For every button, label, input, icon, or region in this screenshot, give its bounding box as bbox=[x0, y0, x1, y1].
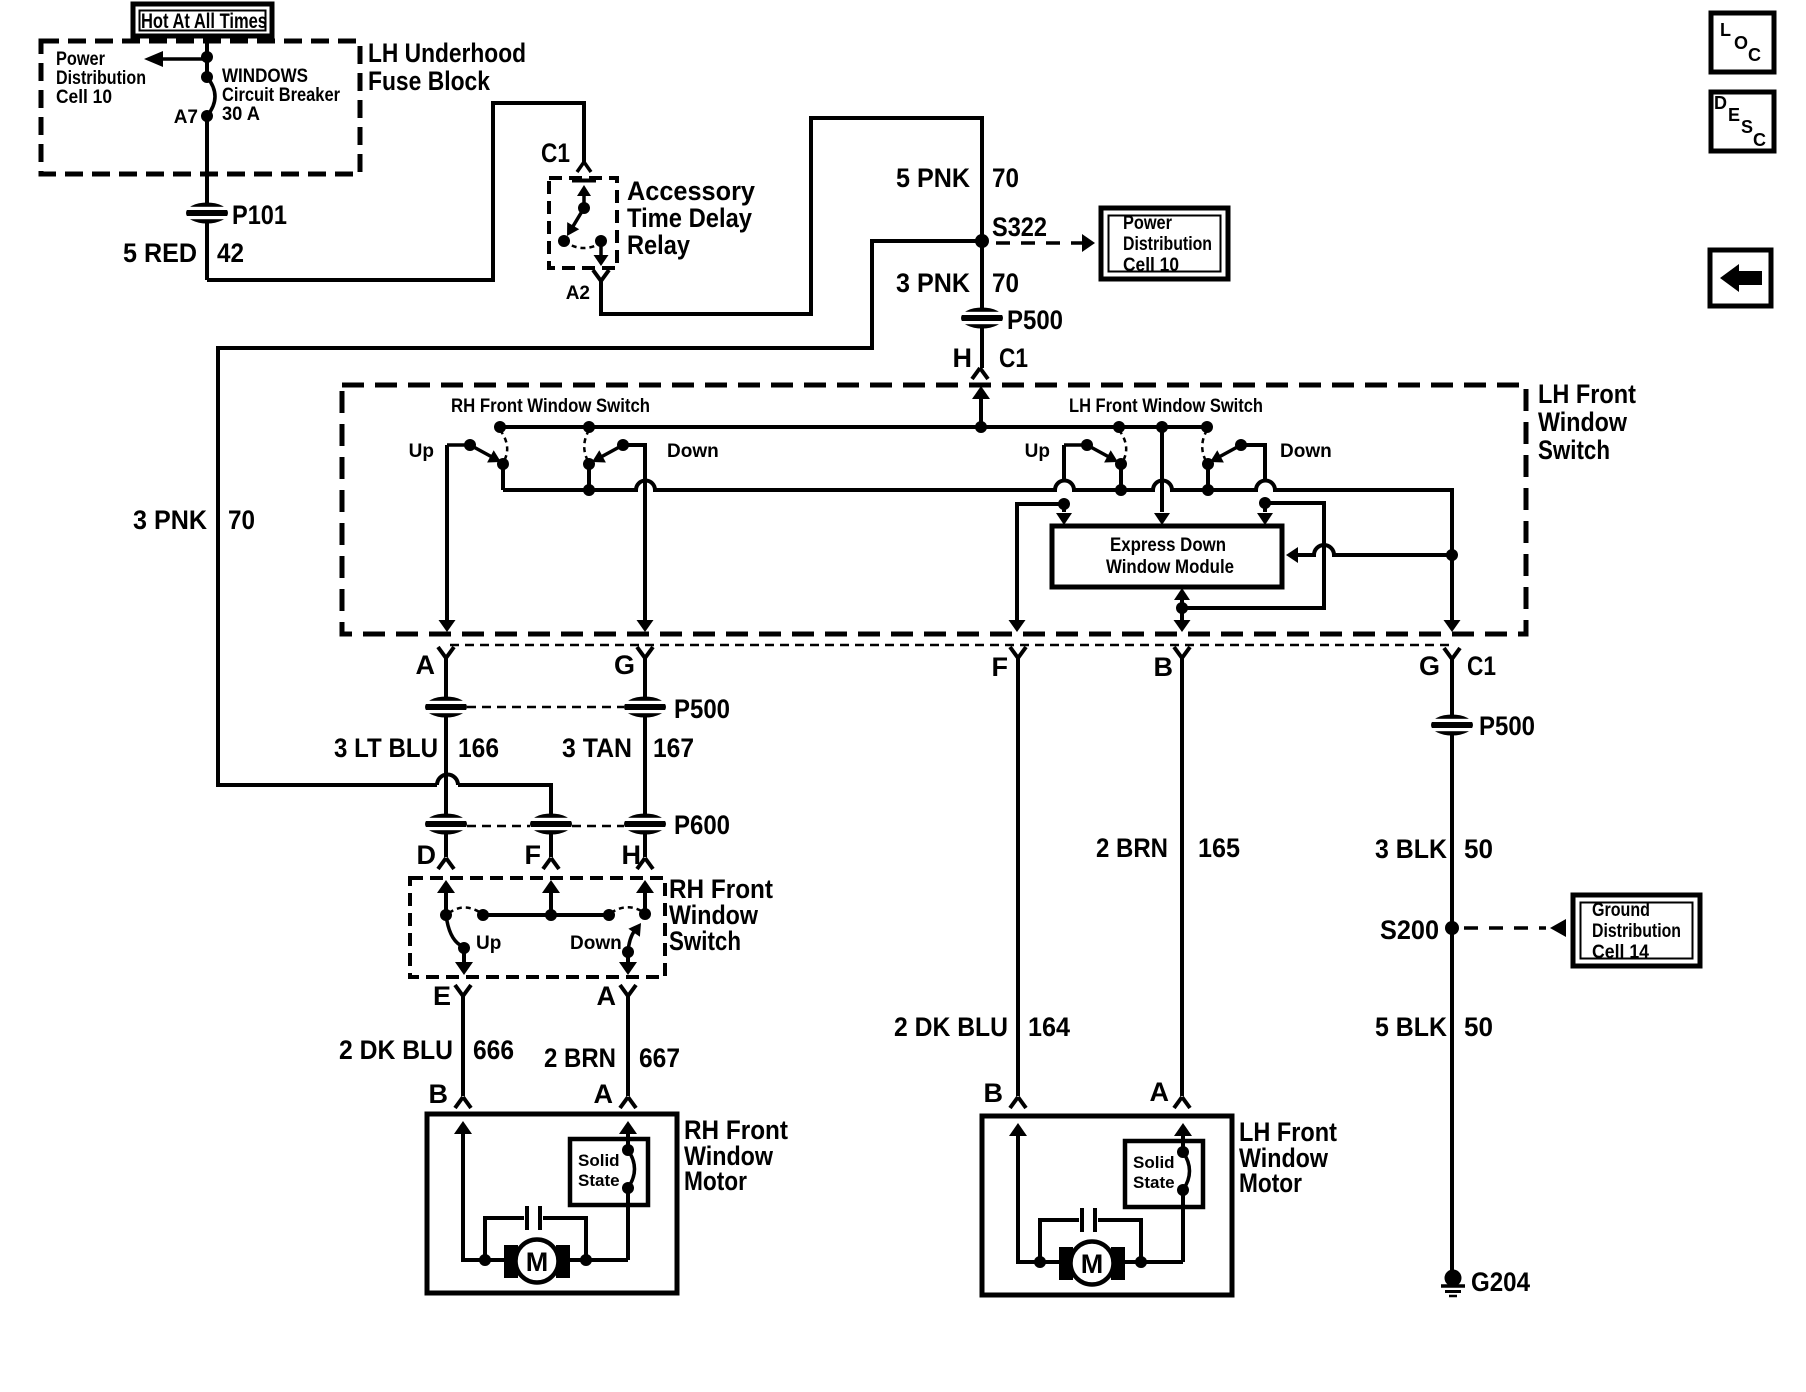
svg-text:P500: P500 bbox=[1007, 305, 1063, 335]
svg-text:50: 50 bbox=[1464, 1012, 1493, 1042]
svg-text:Down: Down bbox=[667, 441, 719, 462]
svg-text:Solid: Solid bbox=[1133, 1153, 1175, 1172]
node bus right junction bbox=[1446, 549, 1458, 561]
hot at all times label box bbox=[133, 4, 272, 36]
svg-text:Solid: Solid bbox=[578, 1151, 620, 1170]
svg-text:H: H bbox=[953, 343, 973, 373]
svg-text:D: D bbox=[1714, 93, 1727, 113]
LH front window switch assembly dashed box bbox=[342, 385, 1526, 634]
wire RH up to terminal A bbox=[445, 445, 449, 624]
LH up contact bbox=[1113, 421, 1125, 433]
wire terminal F down to LH motor bbox=[1016, 658, 1020, 1096]
svg-text:A2: A2 bbox=[566, 283, 590, 304]
RH motor solid state module bbox=[570, 1139, 648, 1205]
LH mid contact bbox=[1156, 421, 1168, 433]
svg-text:70: 70 bbox=[228, 505, 255, 535]
forks E A bbox=[455, 985, 471, 996]
LH down arm wire bbox=[1241, 445, 1265, 479]
svg-text:State: State bbox=[1133, 1173, 1175, 1192]
svg-text:166: 166 bbox=[458, 733, 499, 763]
connector P101 bbox=[184, 203, 230, 224]
svg-text:Window Module: Window Module bbox=[1106, 557, 1234, 578]
relay linkage dashed bbox=[564, 241, 601, 248]
wire breaker to P101 bbox=[205, 116, 209, 280]
svg-text:F: F bbox=[992, 652, 1009, 682]
wire to terminal E bbox=[462, 948, 466, 964]
wire terminal A down bbox=[444, 658, 448, 857]
wire 5 RED run to relay C1 bbox=[207, 103, 584, 280]
svg-text:P600: P600 bbox=[674, 810, 730, 840]
svg-text:C: C bbox=[1753, 130, 1766, 150]
LH motor B lead bbox=[1018, 1133, 1065, 1262]
relay fixed contact bar bbox=[572, 179, 596, 183]
svg-text:G: G bbox=[1419, 651, 1440, 681]
svg-text:Time Delay: Time Delay bbox=[627, 203, 752, 233]
RH up fixed contact to bus bbox=[497, 458, 509, 470]
relay armature bbox=[577, 185, 591, 196]
svg-text:5 RED: 5 RED bbox=[123, 238, 197, 268]
connector row dashed line bbox=[450, 644, 1450, 647]
svg-text:Distribution: Distribution bbox=[56, 68, 146, 89]
svg-text:165: 165 bbox=[1198, 833, 1240, 863]
connector fork H C1 bbox=[972, 368, 988, 379]
RH down arm wire to G bbox=[623, 445, 645, 624]
express down window module box bbox=[1052, 526, 1282, 587]
svg-text:30 A: 30 A bbox=[222, 104, 260, 125]
RH motor B lead bbox=[463, 1131, 510, 1260]
svg-text:A: A bbox=[416, 650, 436, 680]
wire branch around module bbox=[1182, 503, 1324, 608]
RH motor capacitor bbox=[479, 1254, 491, 1266]
wire LH up leg below bus bbox=[1062, 501, 1066, 512]
LH motor armature bbox=[1059, 1247, 1073, 1280]
power distribution cell 10 box bbox=[1101, 208, 1228, 279]
LH up linkage dashed bbox=[1119, 430, 1126, 461]
arrow feed into switch assembly bbox=[972, 386, 990, 399]
svg-text:3 PNK: 3 PNK bbox=[133, 505, 207, 535]
LH mid wire to module bbox=[1160, 427, 1164, 512]
svg-text:M: M bbox=[526, 1247, 549, 1277]
svg-text:3 TAN: 3 TAN bbox=[562, 733, 632, 763]
svg-text:Down: Down bbox=[1280, 441, 1332, 462]
LH down contact bbox=[1201, 421, 1213, 433]
svg-text:S: S bbox=[1741, 117, 1753, 137]
LH down pivot bbox=[1202, 458, 1214, 470]
RH down linkage dashed bbox=[584, 430, 589, 461]
svg-text:Express Down: Express Down bbox=[1110, 535, 1226, 556]
svg-text:F: F bbox=[525, 840, 542, 870]
svg-text:E: E bbox=[1728, 105, 1740, 125]
svg-text:LH Front Window Switch: LH Front Window Switch bbox=[1069, 396, 1263, 417]
RH switch bus bbox=[483, 913, 609, 917]
svg-text:2 BRN: 2 BRN bbox=[544, 1043, 616, 1073]
svg-text:Window: Window bbox=[1538, 407, 1628, 437]
svg-text:50: 50 bbox=[1464, 834, 1493, 864]
LH motor capacitor bbox=[1034, 1256, 1046, 1268]
svg-text:Fuse Block: Fuse Block bbox=[368, 66, 491, 96]
wire module bottom to terminal B bbox=[1180, 608, 1184, 624]
svg-text:G204: G204 bbox=[1471, 1267, 1530, 1297]
LH up arm bbox=[1087, 445, 1109, 457]
wire module right side feed bbox=[1292, 545, 1452, 555]
svg-text:164: 164 bbox=[1028, 1012, 1070, 1042]
DESC button bbox=[1711, 92, 1774, 151]
ground G204 bbox=[1445, 1270, 1462, 1287]
svg-text:C: C bbox=[1748, 45, 1761, 65]
svg-text:Motor: Motor bbox=[684, 1166, 747, 1196]
terminal forks bbox=[438, 647, 454, 658]
LH up pivot wire bbox=[1064, 443, 1087, 447]
wire E to motor B bbox=[461, 996, 465, 1096]
svg-text:P500: P500 bbox=[674, 694, 730, 724]
RH switch down contact bbox=[583, 421, 595, 433]
svg-text:Switch: Switch bbox=[669, 926, 741, 956]
svg-text:E: E bbox=[433, 981, 451, 1011]
svg-text:70: 70 bbox=[992, 163, 1019, 193]
svg-text:666: 666 bbox=[473, 1035, 514, 1065]
connector P500 right bbox=[1429, 715, 1475, 736]
svg-text:A: A bbox=[597, 981, 617, 1011]
LH down linkage dashed bbox=[1202, 430, 1207, 461]
svg-text:A: A bbox=[1150, 1077, 1170, 1107]
svg-text:S322: S322 bbox=[992, 212, 1047, 242]
svg-text:State: State bbox=[578, 1171, 620, 1190]
RH motor A lead bbox=[619, 1121, 637, 1134]
svg-text:Down: Down bbox=[570, 933, 622, 954]
accessory time delay relay dashed box bbox=[549, 178, 617, 268]
svg-text:5 BLK: 5 BLK bbox=[1375, 1012, 1447, 1042]
circuit breaker WINDOWS 30A bbox=[201, 71, 213, 83]
svg-text:LH Front: LH Front bbox=[1538, 379, 1636, 409]
svg-text:5 PNK: 5 PNK bbox=[896, 163, 970, 193]
RH down arm bbox=[601, 445, 623, 457]
svg-text:Hot At All Times: Hot At All Times bbox=[141, 10, 267, 33]
svg-text:D: D bbox=[417, 840, 437, 870]
svg-text:B: B bbox=[984, 1078, 1004, 1108]
connector P500 top bbox=[959, 308, 1005, 329]
svg-text:Cell 10: Cell 10 bbox=[56, 87, 112, 108]
ground distribution cell 14 box bbox=[1573, 895, 1700, 966]
arrows into RH switch bbox=[437, 880, 455, 893]
splice S322 bbox=[975, 234, 989, 248]
wire LH down leg below bus bbox=[1263, 501, 1267, 512]
relay contact A2 side bbox=[595, 235, 607, 247]
LH motor solid state module bbox=[1125, 1141, 1203, 1207]
svg-text:Power: Power bbox=[1123, 213, 1173, 234]
svg-text:3 BLK: 3 BLK bbox=[1375, 834, 1447, 864]
RH down pivot bbox=[583, 458, 595, 470]
switch contact rail bbox=[500, 425, 1207, 429]
dashed arrow S322 to power distribution bbox=[996, 241, 1082, 245]
svg-text:3 LT BLU: 3 LT BLU bbox=[334, 733, 438, 763]
RH switch up pivot bbox=[440, 909, 452, 921]
LOC button bbox=[1711, 13, 1774, 72]
LH up fixed contact to bus bbox=[1115, 458, 1127, 470]
svg-text:Motor: Motor bbox=[1239, 1168, 1302, 1198]
splice S200 bbox=[1445, 921, 1459, 935]
svg-text:2 DK BLU: 2 DK BLU bbox=[339, 1035, 453, 1065]
svg-text:WINDOWS: WINDOWS bbox=[222, 66, 308, 87]
hump over A wire bbox=[437, 775, 458, 785]
forks into LH motor bbox=[1010, 1097, 1026, 1108]
svg-text:Accessory: Accessory bbox=[627, 176, 755, 206]
svg-text:Distribution: Distribution bbox=[1123, 234, 1212, 255]
back arrow button bbox=[1710, 250, 1771, 306]
arrow to power distribution bbox=[160, 57, 207, 61]
RH switch down pivot bbox=[639, 908, 651, 920]
svg-text:O: O bbox=[1734, 33, 1748, 53]
svg-text:G: G bbox=[614, 650, 635, 680]
svg-text:667: 667 bbox=[639, 1043, 680, 1073]
svg-text:C1: C1 bbox=[541, 138, 570, 168]
wire terminal G C1 down to ground bbox=[1450, 659, 1454, 1271]
svg-text:Cell 10: Cell 10 bbox=[1123, 255, 1179, 276]
svg-text:167: 167 bbox=[653, 733, 694, 763]
wire hot feed into breaker bbox=[205, 36, 209, 77]
svg-text:70: 70 bbox=[992, 268, 1019, 298]
svg-text:A7: A7 bbox=[174, 107, 198, 128]
RH switch up linkage dashed bbox=[449, 908, 481, 914]
svg-text:B: B bbox=[1154, 652, 1174, 682]
RH front window switch dashed box bbox=[410, 878, 665, 977]
wire A2 to 5 PNK riser bbox=[601, 118, 982, 368]
node module bottom junction bbox=[1176, 602, 1188, 614]
svg-text:C1: C1 bbox=[999, 343, 1028, 373]
RH switch down arm bbox=[628, 930, 635, 952]
wire to terminal A lower bbox=[626, 952, 630, 964]
RH switch up arm bbox=[446, 915, 460, 945]
LH motor A lead bbox=[1174, 1123, 1192, 1136]
svg-text:B: B bbox=[429, 1079, 449, 1109]
svg-text:Relay: Relay bbox=[627, 230, 690, 260]
dashed arrow to ground distribution bbox=[1464, 926, 1546, 930]
svg-text:Switch: Switch bbox=[1538, 435, 1610, 465]
svg-text:Up: Up bbox=[1025, 441, 1050, 462]
svg-text:2 DK BLU: 2 DK BLU bbox=[894, 1012, 1008, 1042]
forks into RH motor bbox=[455, 1097, 471, 1108]
wire A to motor A bbox=[626, 996, 630, 1096]
wire branch to F terminal bbox=[1017, 504, 1064, 624]
RH front window motor box bbox=[427, 1114, 677, 1293]
LH front window motor box bbox=[982, 1116, 1232, 1295]
switch output bus bbox=[503, 481, 1452, 625]
connector fork C1 relay bbox=[577, 162, 591, 172]
svg-text:RH Front Window Switch: RH Front Window Switch bbox=[451, 396, 650, 417]
wire terminal G down bbox=[643, 658, 647, 857]
svg-text:3 PNK: 3 PNK bbox=[896, 268, 970, 298]
svg-text:P101: P101 bbox=[232, 200, 287, 230]
node feed junction bbox=[975, 421, 987, 433]
wire S322 branch to left riser bbox=[218, 241, 982, 785]
svg-text:42: 42 bbox=[217, 238, 244, 268]
RH up pivot wire bbox=[447, 443, 470, 447]
connector fork A2 bbox=[593, 270, 609, 281]
LH down arm bbox=[1219, 445, 1241, 457]
svg-text:Cell 14: Cell 14 bbox=[1592, 942, 1649, 963]
svg-text:Power: Power bbox=[56, 49, 106, 70]
RH switch down linkage dashed bbox=[611, 907, 643, 913]
svg-text:A: A bbox=[594, 1079, 614, 1109]
svg-text:Circuit Breaker: Circuit Breaker bbox=[222, 85, 341, 106]
wire terminal B down to LH motor bbox=[1180, 658, 1184, 1096]
svg-text:Distribution: Distribution bbox=[1592, 921, 1681, 942]
svg-text:2 BRN: 2 BRN bbox=[1096, 833, 1168, 863]
RH up arm bbox=[470, 445, 492, 457]
RH up linkage dashed bbox=[500, 430, 507, 461]
svg-text:Ground: Ground bbox=[1592, 900, 1650, 921]
RH switch up contact bbox=[494, 421, 506, 433]
connector P600 row bbox=[423, 814, 469, 835]
svg-text:Up: Up bbox=[476, 933, 501, 954]
wire LH up leg bbox=[1062, 445, 1066, 479]
wire into module bottom bbox=[1180, 593, 1184, 608]
RH motor armature bbox=[504, 1245, 518, 1278]
arrows out of switch assembly bbox=[439, 620, 456, 632]
LH underhood fuse block dashed box bbox=[41, 41, 360, 174]
svg-text:LH Underhood: LH Underhood bbox=[368, 38, 526, 68]
connector P500 pair bbox=[423, 697, 469, 718]
svg-text:C1: C1 bbox=[1467, 651, 1496, 681]
forks D F H bbox=[438, 858, 454, 869]
svg-text:M: M bbox=[1081, 1249, 1104, 1279]
svg-text:S200: S200 bbox=[1380, 915, 1439, 945]
svg-text:P500: P500 bbox=[1479, 711, 1535, 741]
svg-text:Up: Up bbox=[409, 441, 434, 462]
node hot junction bbox=[201, 51, 213, 63]
svg-text:L: L bbox=[1720, 20, 1731, 40]
